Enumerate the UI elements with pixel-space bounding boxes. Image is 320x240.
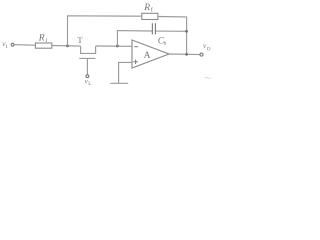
resistor Ri <box>35 43 51 48</box>
control terminal vL <box>86 75 89 78</box>
svg-text:R: R <box>143 3 150 13</box>
op-amp plus sign <box>133 61 138 63</box>
svg-text:O: O <box>207 47 211 53</box>
wire source to op-amp inverting input <box>96 45 133 47</box>
node inverting input junction <box>116 44 119 47</box>
wire op-amp output <box>169 53 200 56</box>
capacitor Ch plates <box>151 23 153 34</box>
output terminal vO <box>200 53 203 56</box>
ground <box>110 82 128 84</box>
transistor T gate lead <box>86 58 88 74</box>
svg-text:i: i <box>45 37 47 44</box>
transistor T channel and leads <box>81 46 96 53</box>
input terminal vI <box>11 43 14 46</box>
svg-text:R: R <box>38 33 45 43</box>
node Ch to feedback riser junction <box>185 30 188 33</box>
svg-text:L: L <box>88 81 91 87</box>
svg-text:I: I <box>6 44 8 50</box>
wire noninverting input to ground <box>119 62 132 83</box>
node output junction <box>185 53 188 56</box>
svg-text:T: T <box>77 35 83 45</box>
op-amp minus sign <box>134 46 138 48</box>
node junction at feedback tap <box>66 44 69 47</box>
wire up from inverting node to Ch <box>117 31 152 46</box>
wire feedback riser left and top run to Rf <box>68 16 142 46</box>
svg-text:h: h <box>164 41 167 47</box>
wire Ri to drain <box>52 45 81 48</box>
svg-text:A: A <box>144 51 151 61</box>
op-amp A triangle <box>132 40 169 68</box>
wire Ch to right riser <box>156 30 187 32</box>
wire input to Ri <box>14 44 35 47</box>
resistor Rf <box>142 13 158 19</box>
transistor T gate bar <box>79 57 95 59</box>
wire Rf to right riser down to output <box>158 17 187 55</box>
